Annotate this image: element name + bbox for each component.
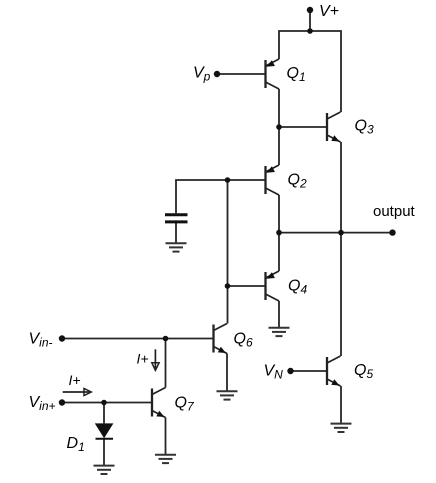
wire top rail V+	[279, 31, 341, 112]
wire Vp to Q1 base	[217, 73, 266, 75]
svg-text:I+: I+	[137, 351, 149, 367]
node junction Q4 base branch	[225, 283, 231, 289]
wire Q4 collector to ground	[278, 301, 280, 328]
ground (Q4 collector)	[269, 328, 290, 336]
current arrow I+ (right, at Vin+)	[63, 372, 92, 396]
wire output node to Q4 emitter	[278, 233, 280, 271]
wire D1 cathode to ground	[103, 439, 105, 466]
wire Vin- to Q6 base	[62, 338, 214, 340]
terminal V+	[307, 3, 339, 20]
wire Q6 emitter to ground	[226, 354, 228, 392]
wire Vin- branch down to Q7 collector	[165, 339, 167, 388]
transistor Q3	[327, 112, 374, 142]
wire Q1 collector to node A	[278, 89, 280, 127]
transistor Q4	[266, 271, 308, 301]
wire Q2 base line to capacitor	[176, 180, 266, 213]
wire Vin+ to Q7 base	[62, 402, 152, 404]
wire D1 anode	[103, 403, 105, 424]
node junction Vin- branch	[163, 336, 169, 342]
wire Q2 collector to output node	[278, 195, 280, 233]
node V+ junction	[307, 28, 313, 34]
node junction D1 anode	[101, 400, 107, 406]
transistor Q1	[266, 59, 306, 89]
diode D1	[67, 423, 114, 454]
node junction Q2 base branch	[225, 177, 231, 183]
wire output line	[279, 232, 393, 234]
wire Q2 base branch down to Q6 collector	[227, 180, 229, 324]
transistor Q7	[152, 388, 195, 418]
terminal Vin-	[29, 331, 66, 350]
svg-text:V+: V+	[319, 3, 339, 20]
transistor Q5	[327, 356, 373, 386]
current arrow I+ (down, at Q7 collector)	[137, 349, 160, 370]
wire branch to Q4 base	[228, 285, 266, 287]
node junction output left	[276, 230, 282, 236]
ground (Q7 emitter)	[155, 455, 176, 463]
ground (capacitor)	[166, 243, 187, 251]
svg-text:I+: I+	[69, 372, 81, 388]
terminal output	[373, 203, 416, 236]
terminal Vp	[193, 65, 220, 84]
wire V+ stub	[309, 10, 311, 31]
wire Q7 emitter to ground	[165, 418, 167, 455]
transistor Q6	[214, 324, 253, 354]
capacitor C1	[165, 215, 188, 222]
wire Q3 emitter down to Q5 collector	[340, 142, 342, 356]
transistor Q2	[266, 165, 307, 195]
ground (D1 cathode)	[94, 466, 115, 474]
wire node A to Q3 base	[279, 126, 327, 128]
terminal VN	[264, 363, 294, 382]
wire capacitor bottom to ground	[175, 220, 177, 243]
node junction output rail	[338, 230, 344, 236]
wire VN to Q5 base	[291, 370, 328, 372]
ground (Q6 emitter)	[217, 391, 238, 399]
node A junction (Q1 collector / Q3 base)	[276, 124, 282, 130]
wire Q5 emitter to ground	[340, 386, 342, 424]
ground (Q5 emitter)	[331, 424, 352, 432]
terminal Vin+	[29, 394, 66, 413]
wire node A to Q2 emitter	[278, 127, 280, 165]
svg-text:output: output	[373, 203, 416, 220]
